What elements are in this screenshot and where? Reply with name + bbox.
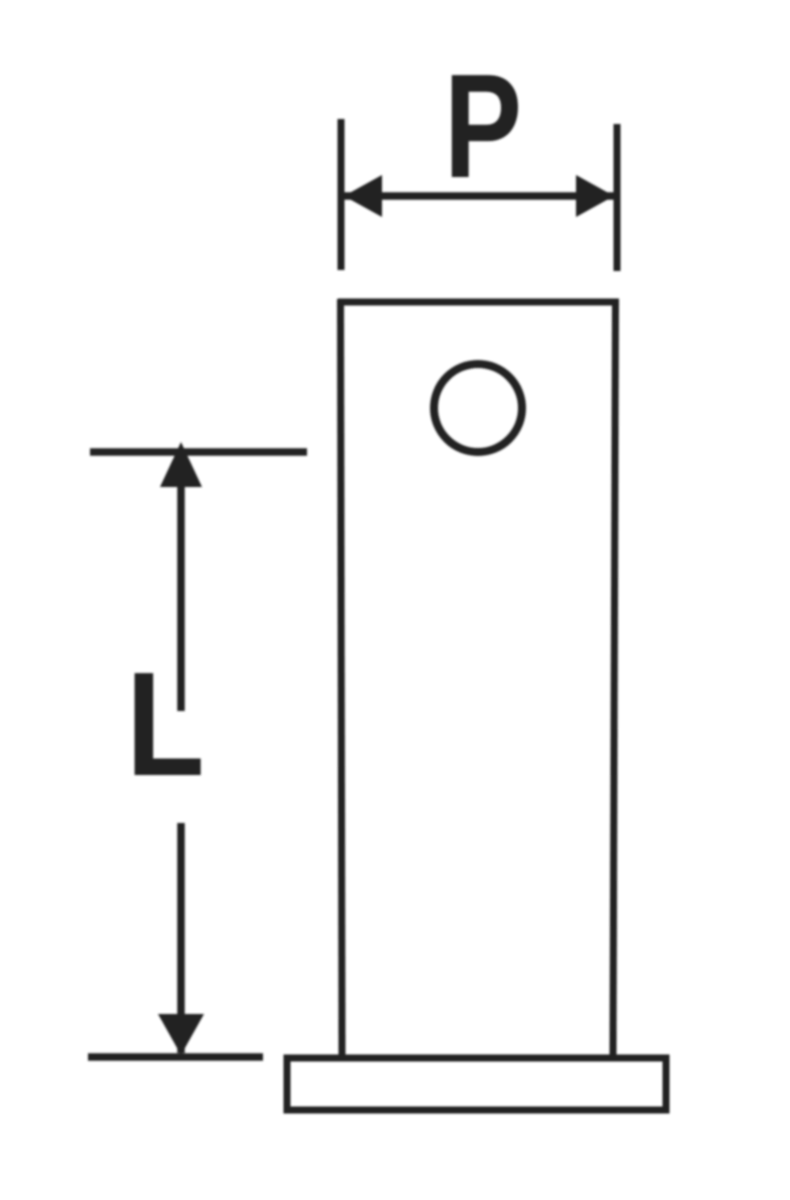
dimension L arrowhead up [160, 442, 202, 487]
svg-text:L: L [126, 642, 205, 807]
dimension L extension line bottom [88, 1053, 263, 1061]
dimension P line [344, 192, 614, 200]
dimension L arrowhead down [158, 1014, 204, 1055]
dimension P extension line right [614, 124, 621, 271]
hole circle [434, 364, 522, 452]
dimension P arrowhead left [344, 175, 382, 217]
dimension P extension line left [338, 119, 345, 270]
svg-text:P: P [444, 44, 522, 209]
dimension L line upper segment [177, 455, 185, 711]
pin body outline [341, 299, 343, 1058]
dimension P arrowhead right [576, 175, 614, 217]
flange head rectangle [287, 1058, 666, 1110]
dimension L line lower segment [177, 823, 185, 1053]
dimension L extension line top [90, 448, 307, 456]
